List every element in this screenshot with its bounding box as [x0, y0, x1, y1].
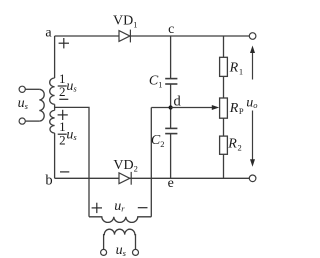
diode VD1 [119, 30, 130, 43]
polarity minus near node b [60, 171, 69, 173]
svg-text:us: us [18, 96, 29, 111]
terminal circle primary top [19, 86, 25, 92]
polarity plus of ur [92, 203, 102, 213]
svg-text:a: a [45, 26, 52, 41]
transformer T1 primary winding [39, 89, 44, 121]
svg-text:VD2: VD2 [113, 158, 137, 174]
svg-text:c: c [168, 22, 174, 37]
svg-text:e: e [168, 176, 174, 191]
terminal circle us2 right [133, 249, 139, 255]
transformer T2 lower winding us [104, 229, 136, 249]
label 1/2 us upper: fraction [58, 71, 78, 99]
transformer T1 secondary upper half winding [50, 78, 55, 104]
wire left column from a down to coil [54, 36, 56, 78]
diode VD2 [119, 172, 131, 185]
wire d to feedback right drop [150, 108, 152, 217]
wire capacitor column c to C1 [170, 36, 172, 78]
uo arrow lower (pointing down) [252, 111, 254, 161]
svg-text:ur: ur [114, 199, 125, 214]
capacitor C2 [165, 128, 177, 133]
polarity minus of ur [138, 207, 148, 209]
wire secondary center section [54, 104, 56, 110]
capacitor C1 [165, 79, 177, 84]
wire d to C2 [170, 108, 172, 129]
svg-text:us: us [116, 243, 127, 258]
resistor R2 body [220, 136, 228, 154]
transformer T1 primary stub bottom [25, 120, 39, 122]
uo arrow upper (pointing up) [252, 52, 254, 80]
potentiometer wiper arrow [171, 107, 213, 109]
resistor R1 body [220, 57, 228, 76]
label 1/2 us lower: fraction [58, 119, 78, 147]
svg-text:d: d [174, 93, 182, 109]
terminal circle us2 left [101, 249, 107, 255]
svg-text:R2: R2 [227, 136, 242, 152]
terminal circle bottom-right [249, 175, 256, 182]
polarity plus below center tap [58, 110, 68, 120]
potentiometer RP body [220, 98, 228, 118]
wire right rail top to R1 [223, 36, 225, 57]
wire d horizontal [151, 107, 170, 109]
wire R1 to RP [223, 76, 225, 98]
wire top rail a-c-rail-terminal [55, 35, 250, 37]
svg-text:R1: R1 [229, 61, 244, 77]
svg-text:C2: C2 [151, 133, 165, 149]
node d junction dot [169, 105, 173, 109]
polarity plus near node a [59, 38, 69, 48]
wire left column coil to b [54, 133, 56, 178]
svg-text:b: b [45, 172, 52, 188]
transformer T2 upper winding ur [89, 217, 151, 223]
wire C1 to d [170, 84, 172, 107]
transformer T1 secondary lower half winding [50, 110, 55, 133]
svg-text:us: us [66, 127, 77, 142]
svg-text:uo: uo [246, 96, 257, 111]
wire RP to R2 [223, 118, 225, 136]
svg-text:us: us [66, 79, 77, 94]
svg-text:VD1: VD1 [113, 14, 137, 30]
terminal circle primary bottom [19, 118, 25, 124]
transformer T1 primary stub top [25, 88, 39, 90]
wire center tap to feedback left drop [55, 107, 89, 216]
svg-text:2: 2 [59, 133, 66, 148]
terminal circle top-right [249, 33, 256, 40]
svg-text:C1: C1 [149, 74, 163, 90]
wire C2 to e [170, 134, 172, 179]
wire bottom rail b-e-rail-terminal [55, 177, 250, 179]
svg-text:2: 2 [59, 84, 66, 99]
polarity minus above center tap [59, 98, 68, 100]
wire R2 to bottom rail [223, 154, 225, 178]
svg-text:RP: RP [229, 101, 244, 116]
